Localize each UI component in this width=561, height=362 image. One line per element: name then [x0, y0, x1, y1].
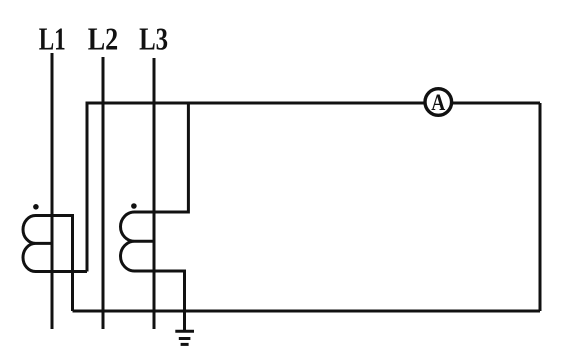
wire phase line L3: [153, 58, 156, 329]
svg-text:A: A: [431, 90, 445, 115]
wire top bus: [87, 103, 540, 272]
current transformer TA2 secondary coil: [121, 103, 189, 331]
wire phase line L1: [51, 53, 54, 329]
current transformer TA1 secondary coil: [23, 216, 87, 312]
wire phase line L2: [102, 57, 105, 329]
polarity dot TA2: [131, 203, 137, 209]
svg-text:L1: L1: [39, 20, 66, 56]
polarity dot TA1: [33, 204, 39, 210]
svg-text:L2: L2: [88, 20, 119, 56]
wire right side: [539, 103, 542, 311]
ammeter A: [425, 89, 452, 116]
ground: [175, 331, 194, 344]
svg-text:L3: L3: [139, 20, 168, 56]
wire bottom bus: [73, 310, 541, 313]
